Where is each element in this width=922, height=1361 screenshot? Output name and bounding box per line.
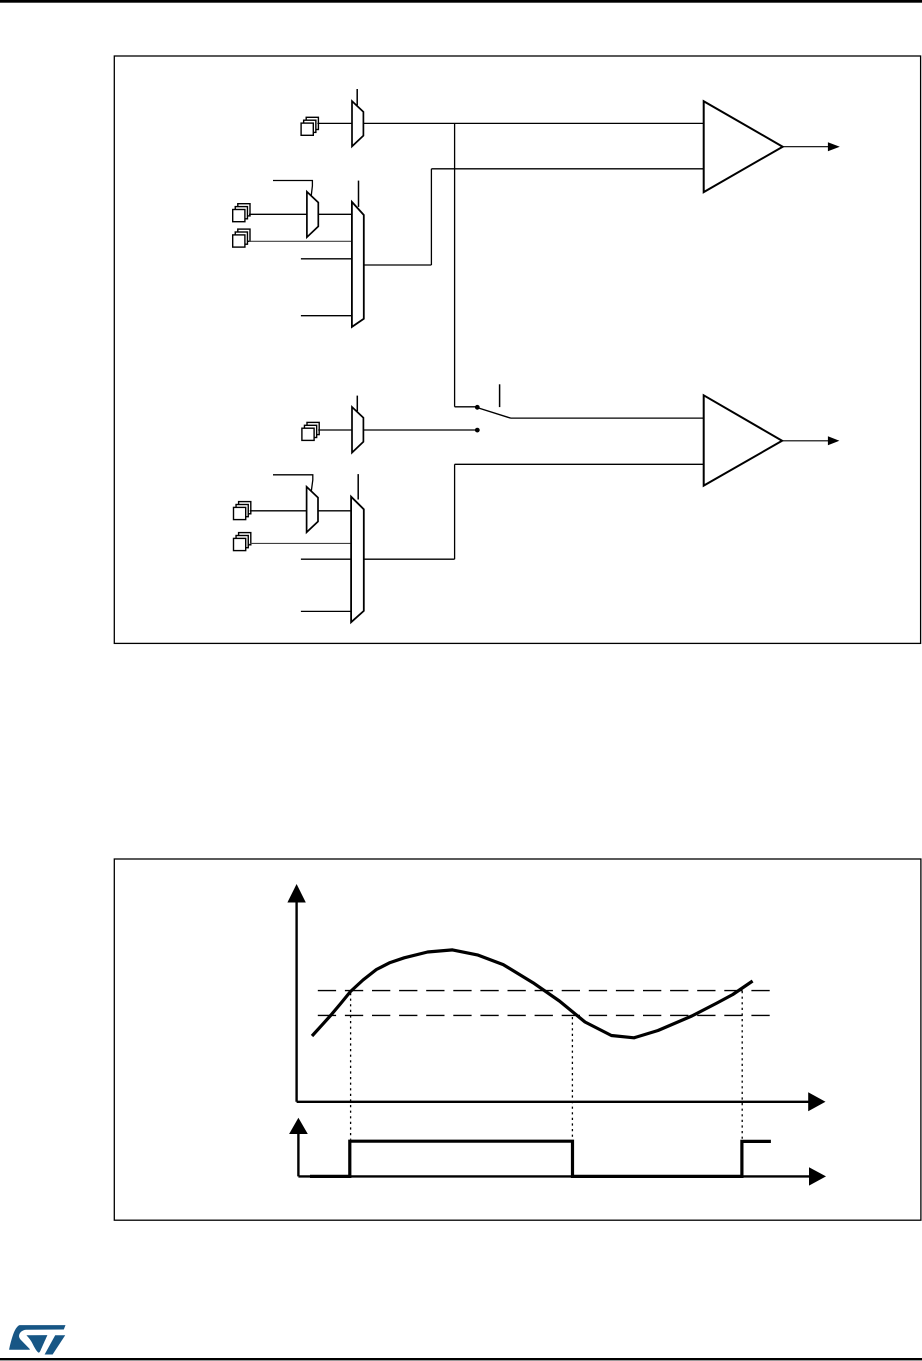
wire: mux D2 output bbox=[364, 558, 455, 560]
arrowhead COMP2 output bbox=[828, 436, 840, 445]
stub: mux D2 input 4 bbox=[301, 610, 351, 612]
arrowhead: vertical axis 2 bbox=[289, 1118, 308, 1134]
op-amp U2 (COMP2) bbox=[704, 395, 782, 485]
select line: switch control bbox=[499, 384, 501, 407]
mux B2 (COMP1 INM selection) bbox=[352, 202, 364, 327]
guide: crossing 1 (dotted vertical) bbox=[350, 993, 352, 1140]
wire: icon B2 to mux B2 (hairline) bbox=[249, 240, 352, 242]
wire: mux D1 to mux D2 bbox=[318, 510, 351, 512]
threshold line: upper hysteresis (dashed) bbox=[318, 990, 773, 992]
wire: mux A1 to COMP1 non-inverting input bbox=[363, 122, 703, 124]
axis: time (horizontal) bbox=[297, 1101, 810, 1103]
page footer rule bbox=[0, 1358, 922, 1360]
arrowhead: vertical axis 1 bbox=[287, 884, 305, 903]
wire: icon A to mux A1 bbox=[317, 122, 352, 124]
stub: mux D2 input 3 (through line left) bbox=[301, 558, 351, 560]
I/O port icon B1 bbox=[233, 204, 250, 222]
op-amp U1 (COMP1) bbox=[704, 101, 783, 192]
arrowhead COMP1 output bbox=[828, 142, 840, 151]
wire: mux B2 output bbox=[364, 264, 432, 266]
I/O port icon D2 bbox=[234, 533, 251, 551]
select line mux B1 (bent) bbox=[273, 181, 312, 197]
figure 2 frame bbox=[114, 859, 921, 1220]
wire: icon D1 to mux D1 bbox=[250, 510, 307, 512]
mux A1 (COMP1 INP selection) bbox=[352, 101, 363, 146]
select line mux D1 (bent) bbox=[273, 475, 313, 491]
wire: mux B1 to mux B2 bbox=[318, 213, 352, 215]
I/O port icon B2 bbox=[233, 229, 250, 247]
wire: lever to COMP2 non-inverting input bbox=[511, 417, 704, 419]
mux C1 (COMP2 INP selection) bbox=[352, 407, 363, 453]
wire: vertical to COMP1 INM level bbox=[430, 169, 432, 265]
page header rule bbox=[0, 0, 922, 3]
select line mux A1 bbox=[356, 89, 358, 105]
wire: icon C to mux C1 bbox=[318, 429, 352, 431]
waveform: comparator output square wave bbox=[310, 1141, 771, 1176]
wire: COMP1 output bbox=[783, 146, 829, 148]
wire: icon B1 to mux B1 bbox=[249, 213, 307, 215]
stub: mux B2 input 3 bbox=[301, 258, 352, 260]
I/O port icon A (COMP1 INP pins) bbox=[301, 117, 318, 135]
guide: crossing 3 (dotted vertical) bbox=[741, 991, 743, 1139]
figure 1 frame bbox=[114, 56, 920, 643]
arrowhead: horizontal axis 2 bbox=[809, 1167, 826, 1185]
I/O port icon C (COMP2 INP pins) bbox=[302, 422, 319, 440]
stub: mux B2 input 4 bbox=[301, 315, 352, 317]
mux B1 bbox=[307, 192, 318, 238]
mux D1 bbox=[307, 487, 318, 533]
node: switch contact 1 bbox=[475, 405, 480, 410]
wire: switch common feed bbox=[455, 406, 476, 408]
guide: crossing 2 (dotted vertical) bbox=[571, 1017, 573, 1140]
switch lever (window comparator mode) bbox=[479, 408, 511, 418]
arrowhead: horizontal axis 1 bbox=[808, 1092, 825, 1111]
ST logo bbox=[9, 1325, 65, 1354]
wire: mux C1 to switch contact 2 bbox=[363, 429, 475, 431]
wire: vertical to COMP2 INM level bbox=[454, 464, 456, 559]
wire: COMP2 output bbox=[782, 440, 828, 442]
wire: icon D2 to mux D2 (hairline) bbox=[250, 542, 351, 544]
waveform: analog input curve bbox=[312, 950, 753, 1038]
node: switch contact 2 bbox=[475, 428, 480, 433]
select line mux D2 bbox=[357, 474, 359, 499]
wire: to COMP2 inverting input bbox=[455, 463, 704, 465]
axis: comparator output (vertical) bbox=[297, 1131, 299, 1176]
wire: to COMP1 inverting input bbox=[431, 168, 703, 170]
axis: analog voltage (vertical) bbox=[295, 900, 297, 1102]
I/O port icon D1 bbox=[234, 502, 251, 520]
select line mux C1 bbox=[356, 396, 358, 412]
mux D2 (COMP2 INM selection) bbox=[351, 497, 364, 623]
axis: time 2 (horizontal) bbox=[298, 1175, 810, 1177]
threshold line: lower hysteresis (dashed) bbox=[318, 1014, 773, 1016]
select line mux B2 bbox=[358, 181, 360, 207]
wire: vertical from INP node to window switch bbox=[454, 123, 456, 406]
